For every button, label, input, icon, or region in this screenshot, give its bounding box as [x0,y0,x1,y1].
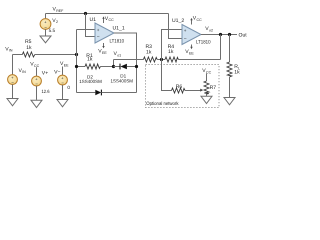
resistor R4 1k [165,44,221,62]
resistor R1 1k [77,53,114,69]
op-amp U1_1 LT1810 [95,23,114,43]
svg-text:o1: o1 [117,53,121,57]
pin VCC arrow U1_2 [190,15,202,24]
svg-text:1k: 1k [168,49,174,55]
label U1_1 [113,25,125,31]
svg-text:+: + [97,28,100,33]
node RL top [228,33,231,36]
pin VEE arrow U1_1 [98,43,107,55]
svg-text:EE: EE [102,51,107,55]
svg-text:R7: R7 [210,85,217,91]
label U1_2 [172,18,184,24]
value 12.6 [42,89,50,94]
label LT1810 U1_2 [196,39,211,45]
svg-text:U1: U1 [90,17,97,23]
label V- [54,70,60,76]
voltage source V2 (VREF 5.5V) [40,14,51,36]
svg-text:EE: EE [189,51,194,55]
svg-text:REF: REF [56,9,64,13]
label Optional network [146,101,179,107]
node R1/D1 [112,65,115,68]
label LT1810 [110,38,125,44]
label V+ [42,70,48,76]
node D1 right [135,65,138,68]
label VCC supply [30,61,39,67]
wire VREF top rail [46,13,169,15]
wire feedback down to R4 [220,35,222,60]
pin VCC arrow U1_1 [102,16,114,23]
svg-text:IN: IN [9,49,13,53]
svg-text:V−: V− [54,70,60,76]
svg-text:CC: CC [109,18,115,22]
ground under RL [224,98,235,105]
svg-text:12.6: 12.6 [42,89,50,94]
svg-text:5.5: 5.5 [49,28,56,33]
resistor R6 [172,84,204,93]
svg-text:R6: R6 [176,84,183,90]
diode D2 1SS400SM [77,75,137,96]
dashed box optional network [146,65,220,108]
label U1 [90,17,97,23]
ground under VREF source [40,36,51,43]
svg-text:U1_2: U1_2 [172,18,184,24]
svg-text:1k: 1k [26,45,32,51]
op-amp U1_2 LT1810 [182,25,201,45]
wire U1_1 output [114,33,137,93]
pin VEE arrow U1_2 [185,45,194,56]
svg-text:Optional network: Optional network [146,101,179,107]
wire +input of U1_1 [77,29,96,31]
svg-text:−: − [44,25,47,30]
svg-text:−: − [97,35,100,41]
svg-text:CC: CC [197,18,203,22]
label Vin source [19,68,27,74]
label V2 [52,18,58,24]
value 0 [67,85,70,90]
resistor R5 1k [13,39,77,57]
label VEE supply [60,61,69,67]
value 5.5 [49,28,56,33]
voltage source V+ (12.6V) [32,67,42,100]
svg-text:EE: EE [64,63,69,67]
svg-text:V+: V+ [42,70,48,76]
ground under VIN [7,99,18,106]
ground under V- [57,100,68,107]
svg-text:LT1810: LT1810 [196,39,211,45]
diode D1 1SS400SM [111,64,137,84]
label Vo2 [205,26,213,32]
wire Vo1 row to R3 [114,59,144,61]
wire Vo1 branch down [113,60,115,67]
svg-text:1SS400SM: 1SS400SM [111,78,134,83]
wire R3R4 node down into box [162,60,172,91]
node R3/R4 junction [160,58,163,61]
svg-text:2: 2 [56,20,58,24]
svg-text:U1_1: U1_1 [113,25,125,31]
svg-text:1k: 1k [234,69,240,75]
svg-text:1k: 1k [87,57,93,63]
svg-text:Out: Out [239,32,248,38]
svg-text:0: 0 [67,85,70,90]
svg-text:LT1810: LT1810 [110,38,125,44]
node R1 left [75,65,78,68]
ground under R7 [201,96,212,103]
potentiometer R7 [202,68,216,96]
svg-text:−: − [11,80,14,85]
svg-text:1SS400SM: 1SS400SM [79,79,102,84]
ground under V+ [31,100,42,107]
label Vo1 [114,51,122,57]
voltage source VIN [8,75,18,99]
svg-text:o2: o2 [209,28,213,32]
label VREF [53,7,65,14]
svg-text:−: − [61,81,64,86]
wire Vin vertical [12,55,14,75]
wire VREF to -input of U1_1 [86,14,96,37]
node R5 / +input junction [75,53,78,56]
resistor R3 1k [143,44,165,62]
wire R3R4 node up to U1_2 +input [162,30,183,60]
wire U1_2 output row [201,34,237,36]
svg-text:+: + [184,28,187,33]
svg-text:−: − [184,37,187,43]
wire VREF down to U1_2 -input [169,14,183,39]
resistor RL 1k [227,35,240,98]
label Vin node [5,46,13,52]
voltage source V- (0V) [58,67,68,100]
node feedback [219,33,222,36]
svg-text:1k: 1k [146,50,152,56]
svg-text:IN: IN [22,70,26,74]
wire +input column [76,30,78,93]
label Out [239,32,248,38]
svg-text:−: − [35,82,38,87]
node VREF rail junction [84,12,87,15]
